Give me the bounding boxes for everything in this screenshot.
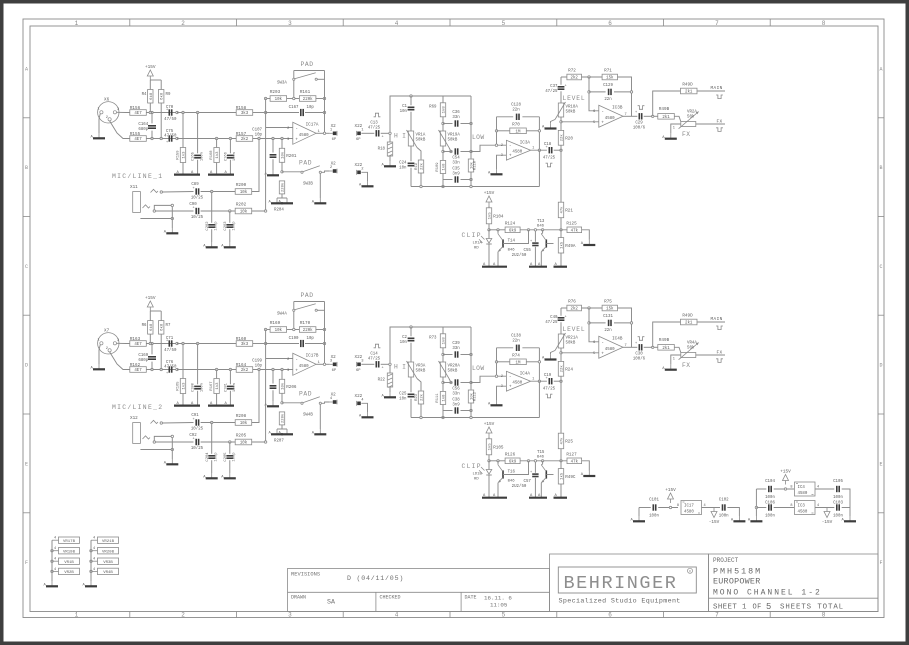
svg-text:100/6: 100/6 <box>633 126 646 131</box>
svg-text:R9: R9 <box>166 93 171 97</box>
wire <box>211 423 213 454</box>
svg-text:2k1: 2k1 <box>685 90 693 95</box>
wire <box>420 173 422 187</box>
node <box>272 368 274 370</box>
svg-text:10k: 10k <box>275 97 283 102</box>
svg-text:3: 3 <box>117 108 119 112</box>
switch SW4A <box>277 304 317 317</box>
ground <box>554 266 568 268</box>
svg-text:X11: X11 <box>130 185 138 190</box>
svg-text:R24: R24 <box>565 367 573 372</box>
node <box>588 322 590 324</box>
svg-text:LEVEL: LEVEL <box>563 326 586 333</box>
svg-text:R127: R127 <box>566 452 577 457</box>
node <box>323 97 325 99</box>
svg-text:10k: 10k <box>240 190 248 195</box>
svg-text:2: 2 <box>106 116 108 120</box>
wire to main out <box>653 322 681 347</box>
svg-text:4: 4 <box>93 547 95 551</box>
svg-text:4580: 4580 <box>684 511 694 515</box>
svg-text:4E7: 4E7 <box>134 138 142 142</box>
svg-text:SHEET 1: SHEET 1 <box>713 603 747 611</box>
wire feedback right <box>618 77 632 116</box>
svg-text:2: 2 <box>106 347 108 351</box>
node <box>281 137 283 139</box>
svg-text:C55: C55 <box>524 249 532 253</box>
svg-text:2k2: 2k2 <box>571 76 579 81</box>
wire <box>774 507 794 509</box>
svg-text:R109: R109 <box>436 162 440 172</box>
wire <box>272 139 274 153</box>
wire <box>282 171 301 173</box>
svg-text:R203: R203 <box>270 90 281 95</box>
wire <box>410 377 412 392</box>
connector X22 pin 4 <box>355 394 365 406</box>
svg-text:1k8: 1k8 <box>442 106 447 114</box>
wire <box>614 322 632 324</box>
resistor <box>468 390 474 403</box>
svg-text:C56: C56 <box>452 388 460 392</box>
svg-text:+: + <box>382 367 384 371</box>
wire <box>560 218 562 230</box>
svg-text:C166: C166 <box>224 151 228 161</box>
svg-text:C2: C2 <box>402 336 407 340</box>
BEHRINGER logo box <box>558 567 696 593</box>
svg-text:47/50: 47/50 <box>164 134 177 139</box>
svg-text:1k8: 1k8 <box>442 163 447 171</box>
node <box>497 460 499 462</box>
node <box>630 91 632 93</box>
node <box>420 416 422 418</box>
wire <box>361 403 367 412</box>
resistor R49D <box>681 83 698 95</box>
wire <box>696 123 725 125</box>
wire <box>638 508 640 517</box>
wire <box>644 115 658 117</box>
node <box>389 132 391 134</box>
wire <box>182 394 184 406</box>
svg-text:1k5: 1k5 <box>560 472 565 480</box>
capacitor <box>169 135 171 141</box>
wire <box>305 343 325 345</box>
svg-text:R49D: R49D <box>682 314 693 319</box>
svg-text:R49A: R49A <box>565 244 576 249</box>
svg-text:R22: R22 <box>378 379 386 383</box>
wire <box>277 197 287 199</box>
svg-text:+: + <box>530 471 532 475</box>
node <box>151 368 153 370</box>
svg-text:C40: C40 <box>550 316 558 320</box>
svg-text:1M: 1M <box>516 362 521 366</box>
wire <box>560 449 562 461</box>
wire <box>442 348 444 362</box>
wire <box>488 224 490 230</box>
wire <box>497 483 499 498</box>
wire <box>410 112 412 131</box>
capacitor <box>609 320 611 326</box>
resistor R104 <box>486 208 504 224</box>
wire <box>229 391 231 406</box>
svg-text:-: - <box>509 375 512 380</box>
registered trademark symbol <box>688 568 693 573</box>
potentiometer VR19A <box>439 130 461 148</box>
svg-text:4: 4 <box>395 612 399 619</box>
svg-text:R18: R18 <box>378 148 386 152</box>
wire <box>197 391 199 406</box>
svg-text:+: + <box>546 377 548 381</box>
resistor R25 <box>558 433 573 449</box>
svg-text:47/50: 47/50 <box>164 117 177 122</box>
ruler tick <box>769 19 771 26</box>
wire <box>443 179 453 181</box>
svg-text:C30: C30 <box>635 353 643 357</box>
wire <box>497 461 499 465</box>
ground <box>542 354 557 361</box>
svg-text:VR17B: VR17B <box>63 540 76 544</box>
capacitor <box>517 114 519 120</box>
svg-text:PAD: PAD <box>301 61 314 68</box>
svg-text:SW4A: SW4A <box>277 313 287 317</box>
wire <box>442 327 444 334</box>
svg-text:1M: 1M <box>516 131 521 135</box>
ruler tick <box>23 512 30 514</box>
svg-text:T14: T14 <box>508 240 516 244</box>
node <box>264 342 266 344</box>
svg-text:3k3: 3k3 <box>241 342 249 347</box>
svg-text:22k: 22k <box>560 134 565 142</box>
op-amp IC3A <box>501 140 535 160</box>
resistor R24 <box>558 361 573 376</box>
wire to inverting input <box>471 376 506 382</box>
resistor R201 <box>279 148 297 162</box>
svg-text:R126: R126 <box>505 452 516 457</box>
svg-text:100n: 100n <box>200 383 204 392</box>
ruler tick <box>449 19 451 26</box>
net marker <box>716 359 723 363</box>
net marker <box>638 337 645 341</box>
wire feedback left <box>496 348 498 376</box>
svg-text:R208: R208 <box>236 414 247 419</box>
manufacturer block <box>550 554 709 612</box>
svg-text:4: 4 <box>93 558 95 562</box>
svg-text:IC17: IC17 <box>684 505 694 509</box>
ground <box>265 401 280 408</box>
svg-text:CLIP: CLIP <box>462 232 482 239</box>
wire <box>216 394 218 406</box>
node <box>652 346 654 348</box>
capacitor <box>208 456 215 458</box>
capacitor <box>408 394 415 396</box>
svg-text:10k: 10k <box>281 382 286 390</box>
svg-text:VR1B: VR1B <box>64 561 74 565</box>
svg-text:6: 6 <box>608 612 612 619</box>
svg-text:+15V: +15V <box>484 191 495 196</box>
wire <box>560 230 562 238</box>
svg-text:1: 1 <box>673 358 675 362</box>
wire <box>497 361 510 363</box>
wire <box>582 307 603 309</box>
wire <box>534 230 536 242</box>
svg-text:47/25: 47/25 <box>545 89 558 94</box>
svg-text:PROJECT: PROJECT <box>713 557 739 564</box>
node <box>258 368 260 370</box>
resistor <box>440 161 446 174</box>
transistor T16 <box>498 465 516 484</box>
wire <box>560 484 562 498</box>
node <box>151 342 153 344</box>
wire <box>266 112 299 114</box>
svg-text:C202: C202 <box>206 221 210 231</box>
resistor <box>159 321 165 335</box>
wire <box>281 139 283 149</box>
ground <box>269 429 284 436</box>
svg-text:50kB: 50kB <box>448 138 458 143</box>
node <box>470 416 472 418</box>
svg-text:C24: C24 <box>399 162 407 166</box>
wire <box>526 361 539 363</box>
resistor R155 <box>130 132 147 142</box>
svg-text:A: A <box>879 66 882 72</box>
svg-text:33n: 33n <box>452 347 460 351</box>
svg-text:A: A <box>25 66 28 72</box>
wire <box>560 253 562 267</box>
wire wiper <box>449 148 451 152</box>
resistor R76 <box>567 300 582 312</box>
ground <box>44 581 59 588</box>
svg-text:VR1A: VR1A <box>416 134 426 138</box>
svg-text:4: 4 <box>54 537 56 541</box>
node <box>215 368 217 370</box>
wire <box>815 507 834 509</box>
wire to main out <box>653 91 681 116</box>
svg-text:C38: C38 <box>452 399 460 403</box>
svg-text:10/25: 10/25 <box>191 215 204 220</box>
wire <box>389 156 391 161</box>
svg-text:C204: C204 <box>206 452 210 462</box>
node <box>258 137 260 139</box>
svg-text:4580: 4580 <box>605 348 615 352</box>
svg-text:22k: 22k <box>420 162 425 170</box>
svg-text:+15V: +15V <box>484 422 495 427</box>
svg-text:4E7: 4E7 <box>134 369 142 373</box>
node <box>560 380 562 382</box>
capacitor <box>227 386 234 388</box>
svg-text:OF: OF <box>753 603 762 611</box>
wire <box>497 230 499 234</box>
svg-text:VR19A: VR19A <box>448 134 461 138</box>
capacitor <box>169 340 171 346</box>
wire <box>443 123 453 125</box>
node <box>182 111 184 113</box>
capacitor <box>270 386 277 388</box>
resistor <box>214 379 220 394</box>
wire to inverting input <box>266 127 293 129</box>
svg-text:+: + <box>193 206 195 210</box>
node <box>264 328 266 330</box>
ground <box>731 516 746 523</box>
capacitor <box>408 338 415 340</box>
node <box>442 416 444 418</box>
svg-text:B: B <box>25 165 28 171</box>
wire <box>540 252 542 267</box>
wire <box>442 96 444 103</box>
node <box>323 111 325 113</box>
capacitor <box>227 155 234 157</box>
svg-text:C105: C105 <box>833 480 843 484</box>
wire <box>755 489 757 516</box>
svg-text:VR3B: VR3B <box>103 561 113 565</box>
svg-text:33n: 33n <box>452 116 460 120</box>
svg-text:4: 4 <box>54 547 56 551</box>
svg-text:3: 3 <box>501 154 503 158</box>
node <box>90 570 92 572</box>
wire <box>253 369 293 371</box>
wire <box>182 113 184 148</box>
op-amp IC17A <box>287 122 320 144</box>
wire jack tip <box>163 191 194 194</box>
wire <box>489 229 505 231</box>
wire jack tip <box>163 422 194 425</box>
resistor <box>387 142 392 156</box>
svg-text:3k3: 3k3 <box>241 111 249 116</box>
ground <box>359 181 374 188</box>
svg-text:R158: R158 <box>236 106 247 111</box>
transistor T13 <box>537 220 546 252</box>
svg-text:10k: 10k <box>240 441 248 446</box>
resistor <box>180 379 186 394</box>
wire to non-inverting input <box>561 352 599 354</box>
svg-text:2k2: 2k2 <box>241 368 249 373</box>
wire <box>317 78 324 80</box>
wire <box>281 370 283 380</box>
wire <box>522 347 539 349</box>
node <box>272 137 274 139</box>
wire <box>540 483 542 498</box>
ruler tick <box>23 413 30 415</box>
svg-text:FX: FX <box>682 131 691 138</box>
wire <box>671 355 681 364</box>
svg-text:6: 6 <box>608 20 612 27</box>
node <box>182 342 184 344</box>
node <box>470 409 472 411</box>
svg-text:2: 2 <box>287 127 289 131</box>
svg-text:PMH518M: PMH518M <box>713 566 762 576</box>
svg-text:22n: 22n <box>512 108 520 112</box>
node <box>264 441 266 443</box>
capacitor <box>609 89 611 95</box>
wire opamp output <box>316 132 330 134</box>
wire <box>321 171 329 172</box>
svg-text:C167: C167 <box>289 106 299 110</box>
svg-text:R21: R21 <box>565 209 573 214</box>
wire <box>160 80 162 90</box>
svg-text:IC3: IC3 <box>798 505 806 509</box>
svg-text:10k: 10k <box>240 210 248 215</box>
svg-text:X2: X2 <box>331 355 337 360</box>
svg-text:1: 1 <box>98 108 100 112</box>
resistor <box>418 160 424 173</box>
svg-text:LD1A: LD1A <box>473 242 483 246</box>
node <box>176 137 178 139</box>
ruler tick <box>878 314 884 316</box>
wire <box>644 346 658 348</box>
svg-text:LEVEL: LEVEL <box>563 95 586 102</box>
node <box>588 307 590 309</box>
wire <box>442 174 444 187</box>
svg-text:C205: C205 <box>224 452 228 462</box>
wire <box>589 91 606 93</box>
wire <box>151 344 153 355</box>
wire <box>443 354 453 356</box>
svg-text:1: 1 <box>75 20 79 27</box>
svg-text:50kB: 50kB <box>566 341 576 346</box>
svg-text:C138: C138 <box>511 334 521 338</box>
wire <box>381 363 389 365</box>
wire <box>282 402 301 404</box>
svg-text:220k: 220k <box>281 413 286 423</box>
svg-text:C169: C169 <box>138 354 148 358</box>
wire <box>488 244 490 267</box>
wire <box>211 229 213 242</box>
ruler tick <box>342 612 344 618</box>
svg-text:F: F <box>25 560 28 566</box>
ground <box>312 198 327 205</box>
wire <box>488 455 490 461</box>
wire <box>361 132 374 134</box>
svg-text:C14: C14 <box>370 353 378 357</box>
wire <box>151 362 153 370</box>
svg-text:C: C <box>879 264 882 270</box>
svg-text:R23: R23 <box>415 393 419 401</box>
svg-text:100p: 100p <box>214 452 218 462</box>
svg-text:8: 8 <box>790 504 792 508</box>
svg-text:IC3B: IC3B <box>612 105 623 110</box>
svg-text:1k5: 1k5 <box>488 212 493 220</box>
svg-text:SW3A: SW3A <box>277 82 287 86</box>
svg-text:SW3B: SW3B <box>303 183 313 187</box>
wire <box>522 116 539 118</box>
ruler tick <box>878 216 884 218</box>
svg-text:R76: R76 <box>568 300 576 305</box>
wire feedback left <box>496 117 498 145</box>
svg-text:C13: C13 <box>370 122 378 126</box>
svg-text:680p: 680p <box>138 128 148 132</box>
wire <box>381 132 389 134</box>
svg-text:R124: R124 <box>505 221 516 226</box>
svg-text:47k: 47k <box>560 206 565 214</box>
resistor <box>468 159 474 172</box>
capacitor <box>376 361 378 367</box>
wire <box>154 436 171 440</box>
resistor <box>440 392 446 405</box>
wire <box>171 438 173 459</box>
svg-text:R164: R164 <box>236 363 247 368</box>
capacitor <box>376 130 378 136</box>
wire <box>389 135 391 143</box>
svg-text:6P: 6P <box>332 138 337 142</box>
svg-text:R110: R110 <box>474 160 478 170</box>
svg-text:R71: R71 <box>604 69 612 74</box>
node <box>495 361 497 363</box>
svg-text:PAD: PAD <box>299 391 312 398</box>
wire <box>560 91 562 103</box>
wire opamp output <box>531 149 547 151</box>
switch SW3B <box>301 166 322 187</box>
svg-text:5: 5 <box>593 352 595 356</box>
svg-text:6k9: 6k9 <box>509 229 517 234</box>
svg-text:+: + <box>530 240 532 244</box>
svg-text:C37: C37 <box>550 85 558 89</box>
